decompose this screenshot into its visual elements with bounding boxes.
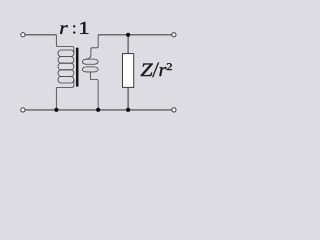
wire: top-right rail: [98, 34, 171, 36]
terminal: top-right open circle: [172, 33, 176, 37]
label: r : 1: [60, 22, 88, 34]
terminal: top-left open circle: [21, 33, 25, 37]
wire: impedance bottom lead: [127, 87, 129, 109]
junction dot: primary bottom: [54, 108, 58, 112]
transformer T1 secondary winding L2 (2 loops): [82, 35, 98, 110]
wire: top-left rail: [25, 34, 56, 36]
junction dot: impedance bottom: [126, 108, 130, 112]
impedance Z/r^2 box: [123, 54, 134, 88]
junction dot: secondary bottom: [96, 108, 100, 112]
transformer T1 primary winding L1 (5 loops): [56, 35, 74, 110]
wire: impedance top lead: [127, 35, 129, 54]
label: Z/r^2: [141, 62, 172, 77]
junction dot: impedance top: [126, 33, 130, 37]
terminal: bottom-left open circle: [21, 108, 25, 112]
slash of Z/r^2: [153, 62, 159, 77]
terminal: bottom-right open circle: [172, 108, 176, 112]
transformer T1 core: [76, 48, 79, 87]
wire: bottom rail: [25, 109, 172, 111]
